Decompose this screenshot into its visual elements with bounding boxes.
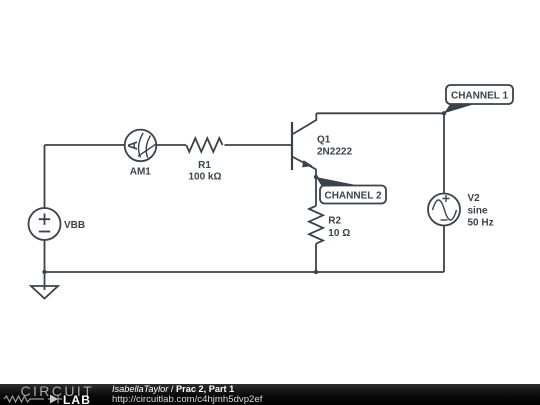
wire bbox=[225, 144, 293, 146]
wire bbox=[443, 226, 445, 273]
wire bbox=[316, 112, 444, 114]
voltage source V2 bbox=[428, 194, 460, 226]
probe CHANNEL 2 bbox=[316, 177, 386, 204]
wire bbox=[44, 145, 46, 208]
svg-text:2N2222: 2N2222 bbox=[317, 146, 352, 157]
wire bbox=[44, 240, 46, 290]
resistor R1 bbox=[186, 138, 222, 152]
svg-text:V2: V2 bbox=[468, 193, 481, 204]
svg-text:10 Ω: 10 Ω bbox=[328, 228, 350, 239]
svg-text:A: A bbox=[125, 140, 140, 150]
probe CHANNEL 1 bbox=[444, 85, 513, 113]
resistor R2 bbox=[309, 206, 323, 244]
svg-text:Q1: Q1 bbox=[317, 135, 331, 146]
svg-text:R1: R1 bbox=[198, 160, 211, 171]
wire bbox=[315, 244, 317, 272]
svg-text:CHANNEL 1: CHANNEL 1 bbox=[451, 91, 508, 102]
footer bar bbox=[0, 384, 540, 405]
node junction at emitter bbox=[314, 175, 318, 179]
svg-text:CHANNEL 2: CHANNEL 2 bbox=[324, 191, 381, 202]
voltage source VBB bbox=[29, 208, 61, 240]
svg-text:R2: R2 bbox=[328, 216, 341, 227]
wire bbox=[157, 144, 186, 146]
CircuitLab logo bbox=[21, 383, 95, 399]
node junction at collector bbox=[442, 111, 446, 115]
node junction R2 bottom bbox=[314, 270, 318, 274]
transistor Q1 bbox=[292, 113, 316, 170]
ground bbox=[31, 286, 58, 299]
svg-text:50 Hz: 50 Hz bbox=[468, 218, 494, 229]
svg-text:VBB: VBB bbox=[64, 220, 85, 231]
node junction VBB bottom bbox=[42, 270, 46, 274]
wire bbox=[443, 113, 445, 193]
wire bbox=[315, 169, 317, 206]
title text bbox=[112, 384, 234, 394]
wire bbox=[45, 271, 445, 273]
url text bbox=[112, 394, 262, 405]
svg-text:sine: sine bbox=[468, 205, 488, 216]
LAB logo text bbox=[63, 393, 91, 405]
ammeter AM1 bbox=[125, 130, 157, 162]
wire bbox=[45, 144, 126, 146]
svg-text:AM1: AM1 bbox=[130, 167, 152, 178]
svg-text:100 kΩ: 100 kΩ bbox=[188, 171, 221, 182]
